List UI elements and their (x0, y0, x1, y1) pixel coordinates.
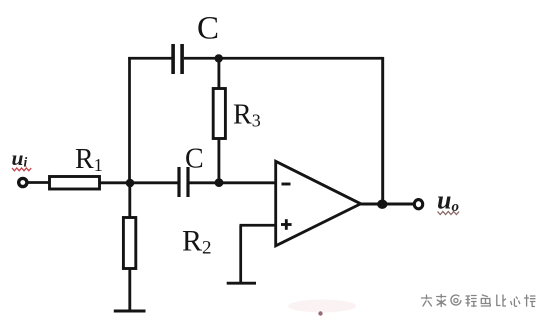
output junction dot (377, 200, 387, 209)
svg-text:C: C (197, 11, 219, 47)
red squiggle under u_i (12, 168, 31, 171)
output terminal circle uo (414, 200, 422, 209)
resistor R2 (123, 218, 135, 269)
top wire to capacitor C1 (128, 57, 171, 60)
op-amp U1 triangle (276, 161, 361, 246)
watermark 头条@绿色比心情 (drawn as vector strokes) (422, 295, 536, 308)
capacitor C (top) (171, 44, 184, 74)
wire op-amp non-inverting input (240, 224, 277, 227)
wire input to R1 (28, 181, 49, 184)
brown squiggle under u_o (438, 212, 460, 215)
ground bar at plus input (227, 282, 256, 285)
wire node A down to R2 (128, 183, 131, 218)
junction dot top node (215, 54, 223, 62)
right feedback rail wire (381, 57, 384, 204)
op-amp plus sign (281, 219, 292, 230)
op-amp minus sign (282, 183, 291, 186)
node A junction dot (126, 179, 135, 188)
wire C2 to op-amp inverting input (190, 181, 277, 184)
middle node junction dot (215, 178, 224, 187)
wire R3 to middle node (217, 139, 220, 184)
left feedback rail wire (128, 57, 131, 183)
output wire from op-amp apex (360, 203, 413, 206)
wire R2 to ground (128, 268, 131, 311)
ground bar under R2 (114, 310, 146, 313)
wire C1 to right rail (184, 57, 384, 60)
resistor R3 (213, 89, 225, 139)
resistor R1 (50, 177, 100, 190)
pink smudge watermark remnant (288, 300, 356, 313)
wire down to ground (plus input) (239, 225, 242, 283)
input terminal circle ui (19, 178, 27, 186)
wire R1 to capacitor C2 (through node A) (100, 181, 178, 184)
wire top node down to R3 (217, 58, 220, 89)
capacitor C (middle) (177, 167, 189, 197)
pink dot artifact (318, 311, 322, 315)
